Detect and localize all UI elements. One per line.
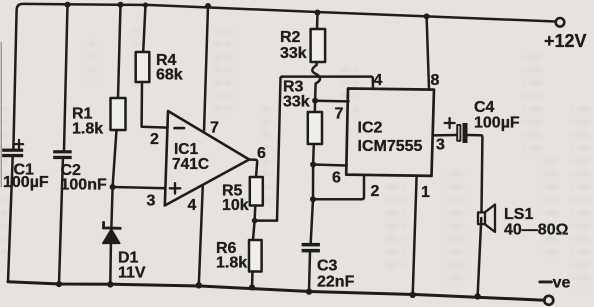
wire: op-amp pin 7 from +12V rail — [204, 6, 208, 132]
junction: pin8 at top rail — [424, 13, 430, 19]
wire: 0V bottom rail — [8, 282, 544, 301]
svg-text:40—80Ω: 40—80Ω — [504, 221, 569, 238]
scan edge artifact left — [1, 42, 2, 187]
svg-text:10k: 10k — [222, 197, 249, 214]
wire: node C to R3 — [314, 101, 317, 113]
wire: R5 to node B — [253, 206, 256, 221]
wire: C3 to 0V rail — [309, 252, 310, 292]
op-amp U1 IC1 741C — [165, 111, 249, 206]
svg-text:100µF: 100µF — [474, 114, 520, 131]
junction: node C — [312, 98, 318, 104]
wire: R4 branch from +12V rail — [143, 5, 145, 52]
wire: node B stub to riser — [255, 219, 277, 222]
junction: pin4 at bottom rail — [196, 282, 202, 288]
junction: R6 at bottom rail — [249, 284, 255, 290]
svg-text:33k: 33k — [280, 45, 307, 62]
svg-text:22nF: 22nF — [317, 273, 355, 290]
svg-text:3: 3 — [147, 192, 156, 209]
svg-text:2: 2 — [371, 183, 380, 200]
svg-text:1: 1 — [421, 184, 430, 201]
junction: C2 at top rail — [65, 2, 71, 8]
junction: R2 at top rail — [315, 10, 321, 16]
wire: node E down to C3 — [311, 199, 313, 243]
wire: riser node B up to IC2 pin 4 line — [277, 77, 283, 221]
op-amp plus sign — [170, 183, 180, 193]
capacitor C3 — [302, 243, 320, 253]
capacitor C4 — [457, 123, 467, 143]
capacitor C2 — [53, 150, 71, 159]
svg-text:7: 7 — [210, 119, 219, 136]
junction: pin1 at bottom rail — [410, 292, 416, 298]
svg-text:4: 4 — [188, 197, 197, 214]
svg-text:6: 6 — [332, 169, 341, 186]
wire: node A to D1 — [111, 187, 112, 227]
svg-text:3: 3 — [436, 136, 445, 153]
resistor R4 — [136, 52, 150, 82]
wire: R3 to node D — [312, 144, 315, 165]
speaker LS1 — [478, 205, 495, 232]
junction: node D — [310, 162, 316, 168]
resistor R5 — [250, 177, 263, 206]
svg-text:C4: C4 — [474, 99, 495, 116]
capacitor C1 — [2, 149, 23, 158]
wire: R4 to op-amp pin 2 — [142, 82, 168, 128]
junction: node B — [252, 218, 258, 224]
diode D1 (zener 11V) — [103, 222, 121, 243]
wire: op-amp output pin 6 to R5 — [249, 160, 257, 178]
op-amp minus sign — [175, 127, 185, 130]
svg-text:7: 7 — [335, 105, 344, 122]
wire: IC2 pin 1 to 0V rail — [413, 176, 417, 295]
resistor R6 — [249, 240, 262, 272]
svg-text:68k: 68k — [156, 67, 183, 84]
resistor R3 — [308, 112, 322, 144]
wire: C4 to LS1 — [466, 135, 482, 212]
svg-text:2: 2 — [150, 131, 159, 148]
junction: node E — [310, 196, 316, 202]
wire: node D to IC2 pin 6 — [313, 165, 347, 166]
IC U2 IC2 ICM7555 box — [346, 89, 434, 176]
resistor R1 — [111, 98, 126, 130]
resistor R2 — [311, 29, 326, 62]
wire: C2 branch from +12V rail — [64, 5, 68, 151]
svg-text:8: 8 — [431, 72, 440, 89]
svg-text:IC2: IC2 — [358, 120, 383, 137]
junction: C3 at bottom rail — [306, 288, 312, 294]
wire: LS1 to 0V rail — [478, 218, 482, 296]
junction: LS1 at bottom rail — [474, 293, 480, 299]
svg-text:741C: 741C — [172, 156, 209, 173]
svg-text:LS1: LS1 — [504, 206, 533, 223]
wire: op-amp pin 4 to 0V rail — [199, 186, 203, 286]
junction: R4 at top rail — [143, 2, 148, 7]
wire: D1 to 0V rail — [109, 244, 112, 285]
junction: R1 at top rail — [118, 2, 124, 8]
junction: D1 at bottom rail — [107, 281, 113, 287]
wire: node A to op-amp pin 3 — [113, 187, 166, 188]
terminal +12V — [556, 18, 565, 27]
svg-text:1.8k: 1.8k — [216, 255, 247, 272]
wire: R2 hop over pin-4 line — [312, 62, 320, 101]
svg-text:100µF: 100µF — [3, 174, 49, 191]
wire: pin 4 horizontal line to IC2 — [282, 77, 373, 89]
wire: R1 to node A — [113, 130, 117, 187]
svg-text:ICM7555: ICM7555 — [358, 138, 423, 155]
svg-text:+12V: +12V — [544, 31, 587, 51]
wire: R1 branch from +12V rail — [118, 5, 121, 98]
wire: R2 branch from +12V rail — [316, 13, 319, 30]
svg-text:100nF: 100nF — [61, 176, 107, 193]
svg-text:R2: R2 — [280, 29, 301, 46]
wire: IC2 pin 8 from +12V rail — [427, 16, 429, 88]
wire: node C to IC2 pin 7 — [315, 99, 349, 102]
wire: node D to node E — [312, 165, 315, 200]
wire: R6 to 0V rail — [251, 272, 254, 288]
terminal -ve — [544, 296, 553, 305]
junction: C2 at bottom rail — [56, 281, 62, 287]
C1 plus sign — [15, 140, 23, 148]
svg-text:33k: 33k — [283, 93, 310, 110]
net -ve dash — [540, 280, 552, 283]
junction: node A — [110, 184, 116, 190]
wire: +12V top rail — [13, 4, 555, 149]
svg-text:11V: 11V — [118, 265, 146, 282]
svg-text:6: 6 — [257, 145, 266, 162]
svg-text:C3: C3 — [317, 257, 338, 274]
wire: C2 to 0V rail — [59, 159, 63, 284]
C4 plus sign — [445, 118, 455, 128]
wire: C1 to 0V rail — [8, 157, 13, 282]
wire: IC2 pin 3 to C4 — [433, 134, 456, 137]
svg-text:1.8k: 1.8k — [72, 121, 103, 138]
junction: pin7 at top rail — [205, 3, 211, 9]
svg-text:ve: ve — [553, 274, 571, 291]
wire: node B to R6 — [253, 221, 255, 240]
wire: IC2 pin 2 to node E — [313, 176, 364, 199]
svg-text:4: 4 — [374, 72, 383, 89]
